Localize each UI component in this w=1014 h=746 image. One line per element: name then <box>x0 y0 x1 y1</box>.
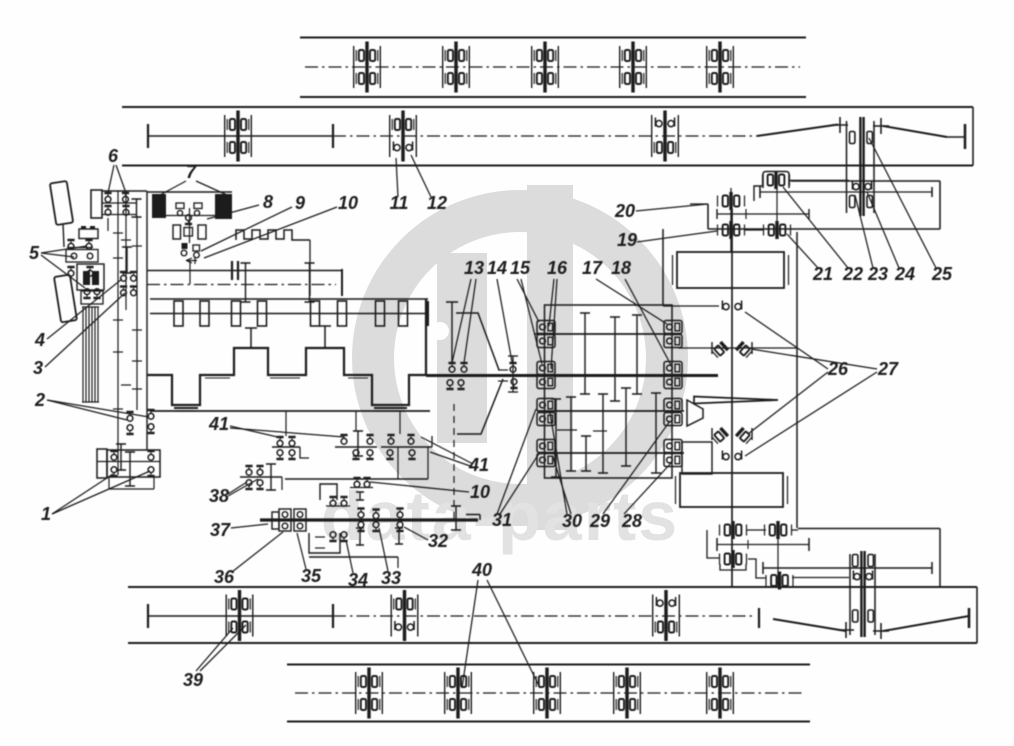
left housing top line <box>102 190 147 192</box>
pump bottom line <box>309 556 398 558</box>
svg-text:5: 5 <box>29 243 40 263</box>
band2 roller unit B (grease fittings below) <box>390 111 417 162</box>
pto cluster C shaft <box>381 446 432 448</box>
gearbox1 axis line <box>97 461 160 463</box>
final drive coupling left <box>720 521 747 539</box>
left column gear mesh <box>132 199 142 217</box>
column2 bearing pair 4 <box>120 271 127 281</box>
rear axle housing bottom line <box>708 228 940 230</box>
shaft spline ticks <box>498 369 508 371</box>
svg-text:24: 24 <box>894 264 915 284</box>
left step down <box>707 530 719 558</box>
svg-text:4: 4 <box>34 330 45 350</box>
band1 roller unit 2 <box>443 42 470 93</box>
band2 bottom rail line <box>122 165 973 167</box>
pump gear ticks below <box>356 528 364 545</box>
motor top line <box>147 191 232 193</box>
band2 top rail line <box>122 106 973 108</box>
pump shaft bearings <box>357 507 364 517</box>
svg-text:1: 1 <box>41 504 51 524</box>
link line to pto grease pair <box>663 305 719 307</box>
gearbox1 housing body <box>107 450 160 477</box>
svg-text:40: 40 <box>471 560 492 580</box>
lower coupling unit 21 <box>764 221 791 239</box>
band3 axis T bar <box>758 608 760 628</box>
fuel tank 1 body <box>677 252 784 288</box>
clutch fork bracket <box>456 313 499 370</box>
svg-text:23: 23 <box>867 264 888 284</box>
svg-text:39: 39 <box>183 670 203 690</box>
band3 right axle T end <box>968 608 971 628</box>
pump right gear mesh <box>451 506 461 530</box>
svg-text:34: 34 <box>348 570 368 590</box>
bevel V-roller lower left <box>711 427 729 445</box>
svg-text:18: 18 <box>611 258 631 278</box>
band3 axis dash-dot <box>333 615 755 617</box>
gearbox1 bottom bracket <box>109 488 154 490</box>
svg-text:20: 20 <box>614 201 635 221</box>
gearbox left bearing stack row2 <box>537 362 555 375</box>
pump gear mesh small <box>356 492 364 500</box>
pump main shaft <box>260 518 478 521</box>
block shading ticks <box>205 377 230 379</box>
band2 drive sprocket unit <box>846 121 848 213</box>
bevel V-roller upper left <box>711 341 729 359</box>
gearbox upper gear ticks <box>580 313 590 394</box>
step to idler <box>748 559 766 578</box>
pto cluster steps <box>300 447 309 458</box>
lower shaft stubs <box>117 450 119 475</box>
rear axle shaft line with T ends <box>760 191 932 193</box>
svg-text:16: 16 <box>547 258 568 278</box>
pto cluster C grease points <box>387 434 394 444</box>
svg-text:30: 30 <box>562 511 582 531</box>
watermark logo right bar <box>527 185 573 530</box>
coupling link lines <box>746 529 766 531</box>
svg-text:33: 33 <box>381 568 401 588</box>
svg-text:41: 41 <box>468 455 489 475</box>
housing line to right <box>798 528 940 530</box>
pump upper-left bracket <box>320 484 337 500</box>
gearbox left bearing stack row3 <box>537 399 555 412</box>
pto cluster 38 gear mesh <box>266 464 276 490</box>
radiator hatch block <box>82 307 84 402</box>
left lever plate upper <box>50 181 73 225</box>
left column verticals <box>107 218 109 231</box>
gearbox left bearing stack row1 <box>537 321 555 334</box>
pump shaft end step <box>466 514 480 516</box>
main shaft thick line <box>426 374 718 377</box>
band2 right end edge <box>972 107 974 166</box>
band4 top rail line <box>287 664 810 666</box>
bevel gear small housing <box>682 442 712 474</box>
bearing bracket around top coupling <box>763 172 789 189</box>
cylinder pushrods <box>250 328 252 348</box>
shaft vertical through couplings <box>730 188 732 252</box>
left bearing pair 2 upper <box>126 411 133 421</box>
pto cluster B gear mesh <box>353 431 363 456</box>
band4 axis centerline <box>295 692 803 694</box>
gear mesh line <box>717 213 809 215</box>
crank upper line <box>147 270 342 272</box>
axle line mid with T ends <box>717 544 809 546</box>
top housing grease points 6 <box>104 192 111 202</box>
band1 axis centerline <box>305 66 800 68</box>
engine lower frame line <box>150 410 430 412</box>
band2 tensioner right cross <box>873 118 889 134</box>
bevel axis line upper <box>678 347 797 349</box>
pump lower-left bracket <box>309 533 340 553</box>
band1 roller unit 4 <box>620 42 647 93</box>
pump filler grease pair 10 <box>353 477 360 487</box>
gearbox housing <box>545 305 673 478</box>
band4 bottom rail line <box>287 721 810 723</box>
pto dashed shaft line <box>453 404 455 519</box>
svg-text:17: 17 <box>582 258 603 278</box>
pto cluster 38 grease points <box>245 465 252 475</box>
starter motor dark block right <box>215 194 232 219</box>
starter motor dark block left <box>152 194 166 218</box>
left gear housing flange <box>91 190 102 218</box>
idler link line <box>792 577 849 579</box>
oil filter box <box>66 250 98 263</box>
pump lower-left cross ticks <box>315 536 325 538</box>
intake downpipe <box>309 240 311 296</box>
starter dark blocks <box>83 271 90 285</box>
svg-text:3: 3 <box>33 358 43 378</box>
rear axle housing left edge <box>707 204 709 229</box>
band3 top rail line <box>128 586 977 588</box>
pto cluster C hanger <box>399 411 401 434</box>
svg-text:37: 37 <box>210 520 231 540</box>
rear axle inlet stub <box>690 203 708 205</box>
svg-text:14: 14 <box>487 258 507 278</box>
band3 drive sprocket unit <box>849 554 851 635</box>
column2 bearing pair 3 <box>120 285 127 295</box>
right housing left vertical <box>662 229 664 306</box>
left lever plate lower <box>54 275 77 323</box>
crank axis dash-dot <box>147 284 336 286</box>
svg-text:32: 32 <box>428 531 448 551</box>
small bracket box <box>79 229 98 239</box>
pto cluster A hanger <box>285 411 287 436</box>
camshaft end T <box>427 301 429 326</box>
fuel tank 1 end plates <box>672 255 674 285</box>
band4 roller unit 3 <box>534 668 561 719</box>
band2 roller unit C (grease fittings above) <box>652 111 679 162</box>
svg-text:35: 35 <box>301 566 322 586</box>
camshaft upper line <box>150 298 428 300</box>
band3 tensioner right diagonal <box>883 616 969 631</box>
band1 top rail line <box>300 37 806 39</box>
crank axis T end <box>341 269 343 296</box>
lower coupling unit 19 <box>718 221 745 239</box>
band3 roller unit C (grease fittings above) <box>653 590 680 641</box>
band3 tensioner left cross <box>838 622 854 638</box>
pump frame top line <box>285 478 398 480</box>
clutch plates <box>231 261 233 280</box>
svg-text:21: 21 <box>812 264 833 284</box>
carburettor bodies <box>173 225 181 239</box>
band1 roller unit 1 <box>354 42 381 93</box>
radiator cap lines <box>82 306 99 308</box>
bracket step to lower unit <box>754 186 763 201</box>
band3 roller unit B (grease fittings below) <box>391 590 418 641</box>
left column right edge <box>146 191 148 450</box>
fuel tank 2 body <box>680 473 783 507</box>
camshaft line <box>150 313 428 315</box>
band3 axle solid segment with T ends <box>148 615 333 617</box>
band2 drive sprocket grease pair <box>852 181 871 190</box>
gearbox right bearing stack row4 <box>664 440 682 453</box>
band1 roller unit 3 <box>532 42 559 93</box>
fan horn <box>687 400 703 426</box>
pump bearing box 1 <box>279 509 291 531</box>
svg-text:36: 36 <box>214 567 235 587</box>
svg-text:11: 11 <box>390 193 409 213</box>
coupling link line <box>745 229 763 231</box>
band4 roller unit 4 <box>614 668 641 719</box>
axle line lower with T ends <box>763 567 932 569</box>
rear axle housing top line <box>791 180 940 182</box>
long right vertical <box>796 232 798 528</box>
column2 gear mesh <box>122 247 132 273</box>
fan blade <box>694 397 778 404</box>
lower bracket box <box>81 291 103 304</box>
pto cluster A grease points <box>276 436 283 446</box>
band2 roller unit A <box>225 111 252 162</box>
bevel V-roller upper right <box>735 341 753 359</box>
clutch release gear mesh <box>446 302 458 364</box>
pto cluster 38 step <box>281 477 283 490</box>
svg-text:38: 38 <box>209 486 229 506</box>
left housing inner lines <box>102 202 136 204</box>
motor small parts <box>176 203 184 209</box>
gearbox layshaft <box>538 410 684 412</box>
pump left end plate <box>272 512 279 529</box>
final drive coupling right <box>765 521 792 539</box>
pto cluster A shaft <box>272 446 300 448</box>
band2 axis dash-dot <box>333 135 757 137</box>
band3 bottom rail line <box>128 642 977 644</box>
pto cluster B grease points <box>340 434 347 444</box>
crank gear ticks <box>241 263 251 302</box>
band2 right axle stub and T end <box>947 136 965 138</box>
lower coupling with bracket <box>720 550 747 568</box>
svg-text:31: 31 <box>492 510 512 530</box>
grease pair row 5b <box>67 266 74 276</box>
pto grease pair upper <box>722 301 741 310</box>
gearbox left bearing stack row4 <box>537 440 555 453</box>
svg-text:9: 9 <box>295 193 305 213</box>
svg-text:19: 19 <box>617 230 637 250</box>
pto cluster 38 shaft <box>240 476 282 478</box>
svg-text:2: 2 <box>34 390 45 410</box>
band2 axle solid segment with T ends <box>148 135 333 137</box>
upper left coupling unit 20 <box>718 192 745 210</box>
gearbox1 housing flange <box>97 449 107 478</box>
gearbox right bearing stack row1 <box>664 321 682 334</box>
housing right vertical <box>939 529 941 588</box>
gearbox output shaft <box>538 452 684 454</box>
watermark logo counter hole <box>431 322 449 340</box>
grease points below starter <box>83 289 90 299</box>
band3 drive sprocket grease pair <box>853 571 872 580</box>
svg-text:27: 27 <box>877 359 899 379</box>
svg-text:8: 8 <box>263 192 273 212</box>
clutch bearing pair 13 <box>448 362 455 372</box>
fuel tank 2 end plates <box>675 476 677 504</box>
gearbox1 gear mesh ticks <box>116 444 126 470</box>
camshaft lobes <box>174 301 183 326</box>
bevel V-roller lower right <box>735 427 753 445</box>
svg-text:25: 25 <box>931 264 953 284</box>
grease pair row 5a <box>67 239 74 249</box>
left lever plate upper stem <box>63 224 64 247</box>
pilot bearing 14 <box>512 356 514 392</box>
band2 tensioner left diagonal <box>757 125 838 137</box>
pump grease pair 34 <box>329 532 336 542</box>
pump bearing box 2 <box>294 509 306 531</box>
main vertical shaft right side <box>731 209 733 586</box>
watermark logo ring <box>373 211 667 505</box>
svg-text:13: 13 <box>464 258 484 278</box>
gearbox spline marks <box>557 429 577 431</box>
vertical through right coupling <box>777 524 779 587</box>
band3 tensioner right cross <box>873 623 889 639</box>
band1 bottom rail line <box>300 96 806 98</box>
band4 roller unit 1 <box>356 668 383 719</box>
gearbox1 bearings 1 <box>110 450 117 460</box>
gearbox right bearing stack row2 <box>664 362 682 375</box>
svg-text:29: 29 <box>589 511 610 531</box>
band4 roller unit 2 <box>445 668 472 719</box>
pump upper-left grease pair <box>329 496 336 506</box>
band1 roller unit 5 <box>707 42 734 93</box>
svg-text:41: 41 <box>208 414 229 434</box>
band4 roller unit 5 <box>707 668 734 719</box>
pto cluster B hanger <box>355 411 357 431</box>
svg-text:15: 15 <box>510 258 531 278</box>
pump cluster 8 9 <box>182 243 188 249</box>
coupling connect line <box>789 180 849 182</box>
band2 tensioner right diagonal <box>883 126 947 137</box>
engine sump double lines <box>174 407 198 409</box>
svg-text:7: 7 <box>186 162 197 182</box>
band2 tensioner left cross <box>832 117 848 133</box>
gearbox right bearing stack row3 <box>664 399 682 412</box>
svg-text:10: 10 <box>338 193 358 213</box>
pump vertical shaft <box>189 208 191 243</box>
left bearing pair 2 lower <box>147 409 154 419</box>
pto cluster B shaft <box>335 446 377 448</box>
gearbox input shaft <box>535 333 680 335</box>
intake manifold zigzag <box>236 230 310 240</box>
engine block outline <box>147 299 426 405</box>
band3 roller unit A <box>226 590 253 641</box>
svg-text:22: 22 <box>842 264 863 284</box>
gearbox lower gear ticks <box>551 399 561 477</box>
starter box <box>77 264 104 290</box>
band3 right end edge <box>976 587 978 643</box>
pump frame hangers <box>397 447 399 479</box>
idler coupling unit <box>766 572 793 590</box>
pto grease pair lower <box>722 451 741 460</box>
svg-text:6: 6 <box>108 146 119 166</box>
svg-text:10: 10 <box>470 482 490 502</box>
column cross ticks <box>113 232 123 234</box>
motor base line <box>166 215 218 217</box>
band3 tensioner left diagonal <box>773 619 846 631</box>
rear axle housing right edge <box>939 181 941 229</box>
top coupling roller unit <box>763 171 790 189</box>
watermark logo left bar <box>437 253 487 443</box>
